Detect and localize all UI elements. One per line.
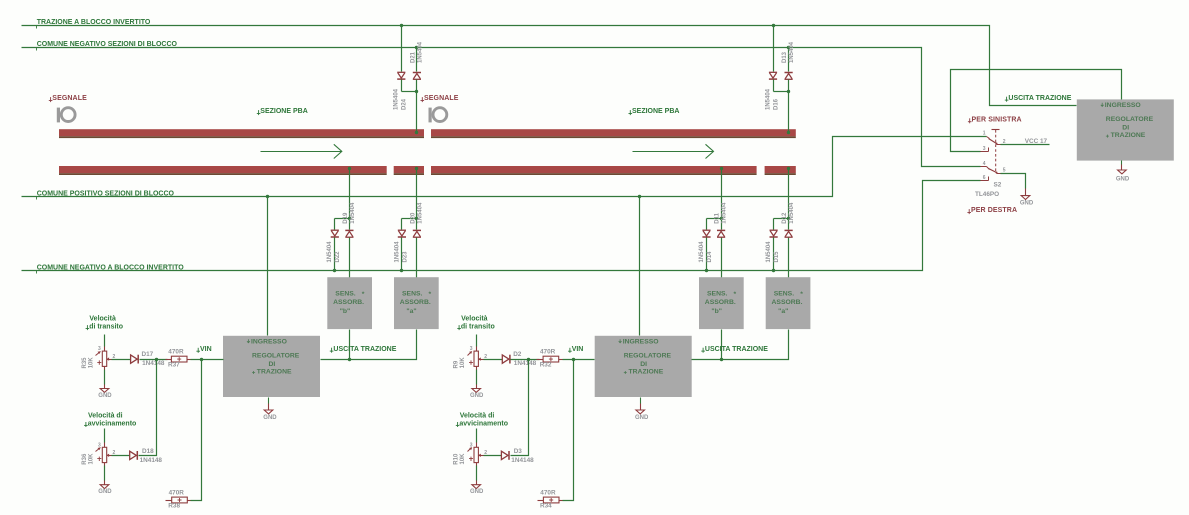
svg-text:470R: 470R xyxy=(169,490,185,497)
svg-text:1N5404: 1N5404 xyxy=(394,88,400,110)
label 1N4148 of D2 xyxy=(514,360,537,367)
svg-text:TRAZIONE A BLOCCO INVERTITO: TRAZIONE A BLOCCO INVERTITO xyxy=(37,19,151,26)
label D18 xyxy=(142,448,154,455)
track section bar row2 segment C (lower rail) xyxy=(431,166,757,175)
diode D17 1N4148 xyxy=(131,355,139,364)
wire from diode D23 down to bottom bus xyxy=(400,238,403,273)
svg-text:6: 6 xyxy=(983,175,986,181)
label 1N5404 of D21 xyxy=(418,41,424,63)
resistor R38 470R (lower) xyxy=(166,490,191,510)
svg-text:*: * xyxy=(734,291,737,298)
svg-text:1N5404: 1N5404 xyxy=(789,202,795,224)
label 1N5404 of D22 xyxy=(327,241,333,263)
diode D16 (1N5404, pointing down) xyxy=(769,72,777,79)
svg-text:COMUNE NEGATIVO SEZIONI DI BLO: COMUNE NEGATIVO SEZIONI DI BLOCCO xyxy=(37,41,178,48)
svg-text:R32: R32 xyxy=(540,362,552,369)
svg-text:SEGNALE: SEGNALE xyxy=(424,95,459,102)
label S2 xyxy=(994,181,1002,188)
track section bar row2 segment A (lower rail) xyxy=(59,166,387,175)
svg-text:1: 1 xyxy=(983,131,986,137)
svg-text:3: 3 xyxy=(470,346,473,352)
svg-text:di transito: di transito xyxy=(89,324,123,331)
label 1N5404 of D11 xyxy=(722,202,728,224)
svg-text:Velocità di: Velocità di xyxy=(88,412,123,419)
junction on track bar xyxy=(787,131,790,134)
op-block U-REG2 INGRESSO REGOLATORE DI TRAZIONE xyxy=(595,336,692,397)
svg-text:1N5404: 1N5404 xyxy=(418,41,424,63)
track section bar row1 left (SEZIONE PBA 1 upper rail) xyxy=(59,129,424,138)
svg-text:GND: GND xyxy=(98,393,112,399)
wire D18 cathode up to D17 node xyxy=(139,360,157,456)
svg-text:ASSORB.: ASSORB. xyxy=(333,299,364,306)
label D17 xyxy=(142,351,154,358)
diode D24 (1N5404, pointing down) xyxy=(397,72,405,79)
svg-text:D21: D21 xyxy=(410,51,416,63)
diode D13 (1N5404, pointing up) xyxy=(785,73,793,80)
svg-text:D13: D13 xyxy=(782,51,788,63)
svg-text:D3: D3 xyxy=(514,448,523,455)
wire net TRAZIONE A BLOCCO INVERTITO (top bus, runs right and into regulator 3 input) xyxy=(22,26,1077,106)
switch S2 pin 3 bracket xyxy=(981,146,989,152)
svg-text:R34: R34 xyxy=(540,503,552,510)
svg-text:GND: GND xyxy=(635,415,649,421)
svg-text:5: 5 xyxy=(1003,168,1006,174)
svg-text:USCITA TRAZIONE: USCITA TRAZIONE xyxy=(1008,95,1071,102)
svg-text:avvicinamento: avvicinamento xyxy=(459,421,508,428)
svg-text:1N5404: 1N5404 xyxy=(418,202,424,224)
svg-text:3: 3 xyxy=(98,346,101,352)
svg-text:di transito: di transito xyxy=(461,324,495,331)
wire from top bus down to diode D16 xyxy=(772,24,775,72)
wire from second bus down through diode D13 to track xyxy=(787,46,790,72)
label 1N5404 of D16 xyxy=(765,88,771,110)
label USCITA TRAZIONE cluster 2 xyxy=(701,346,768,353)
wire R36 wiper to diode D18 xyxy=(112,455,130,457)
wire jog joining D16 and D13 xyxy=(774,80,791,133)
svg-text:470R: 470R xyxy=(540,349,556,356)
svg-text:GND: GND xyxy=(98,489,112,495)
label D11 xyxy=(715,212,721,223)
label VIN (cluster 1) xyxy=(196,346,211,353)
svg-text:REGOLATORE: REGOLATORE xyxy=(624,352,672,359)
wire + ground under regulator 3 xyxy=(1116,161,1130,183)
label D13 xyxy=(782,51,788,63)
svg-text:SENS.: SENS. xyxy=(335,291,356,298)
label 1N5404 of D19 xyxy=(350,202,356,224)
svg-text:Velocità: Velocità xyxy=(89,316,116,323)
switch S2 pin 1 contact and lever xyxy=(987,137,998,145)
svg-text:1N5404: 1N5404 xyxy=(766,241,772,263)
wire R32 to VIN node xyxy=(563,358,595,361)
svg-text:"b": "b" xyxy=(340,308,351,315)
diode D22 (1N5404, pointing down) xyxy=(331,230,339,237)
svg-text:4: 4 xyxy=(983,161,986,167)
svg-text:GND: GND xyxy=(1020,200,1034,206)
wire from diode D15 down to bottom bus xyxy=(772,238,775,273)
diode D11 (1N5404, pointing up) xyxy=(717,230,725,237)
wire switch pin3 to regulator 3 top input xyxy=(951,70,1122,152)
svg-text:10K: 10K xyxy=(460,453,466,465)
svg-text:VIN: VIN xyxy=(572,346,584,353)
diode D18 1N4148 xyxy=(130,451,138,460)
svg-text:1N5404: 1N5404 xyxy=(765,88,771,110)
svg-text:DI: DI xyxy=(640,361,647,368)
label D24 xyxy=(402,98,408,110)
svg-text:D11: D11 xyxy=(715,212,721,223)
wire R10 wiper to diode D3 xyxy=(484,455,502,457)
wire net COMUNE POSITIVO SEZIONI DI BLOCCO (third bus, rises to switch pin 1) xyxy=(22,137,987,197)
wire label to potentiometer R36 xyxy=(104,429,106,443)
svg-text:ASSORB.: ASSORB. xyxy=(772,299,803,306)
wire from track bar down through diode D19 to sensor block xyxy=(348,167,351,278)
diode D15 (1N5404, pointing down) xyxy=(770,230,778,237)
label PER SINISTRA xyxy=(968,116,1022,123)
wire from second bus down through diode D21 to track xyxy=(415,46,418,72)
svg-text:TRAZIONE: TRAZIONE xyxy=(629,368,664,375)
svg-text:"a": "a" xyxy=(406,308,416,315)
wire R38 up to VIN node xyxy=(191,360,202,501)
resistor R34 470R (lower) xyxy=(538,490,563,510)
label D12 xyxy=(782,212,788,224)
label D2 xyxy=(513,351,522,358)
net label TRAZIONE A BLOCCO INVERTITO xyxy=(37,19,151,28)
svg-text:Velocità: Velocità xyxy=(461,316,488,323)
svg-text:10K: 10K xyxy=(460,357,466,369)
label D15 xyxy=(774,251,780,263)
potentiometer R10 10K xyxy=(454,442,488,464)
ground under potentiometer R35 xyxy=(98,367,112,399)
svg-text:10K: 10K xyxy=(89,357,95,369)
net label COMUNE NEGATIVO A BLOCCO INVERTITO xyxy=(37,265,185,274)
signal symbol and label SEGNALE (left) xyxy=(49,95,87,122)
svg-text:D19: D19 xyxy=(343,212,349,224)
diode D14 (1N5404, pointing down) xyxy=(702,230,710,237)
label 1N4148 of D17 xyxy=(142,360,165,367)
wire from track bar down through diode D12 to sensor block xyxy=(787,167,790,278)
svg-text:INGRESSO: INGRESSO xyxy=(623,339,659,346)
label 1N5404 of D24 xyxy=(394,88,400,110)
label 1N4148 of D18 xyxy=(140,457,163,464)
svg-text:R9: R9 xyxy=(454,360,460,368)
label 1N5404 of D23 xyxy=(394,241,400,263)
label 1N5404 of D15 xyxy=(766,241,772,263)
ground under potentiometer R9 xyxy=(470,367,484,399)
potentiometer R35 10K xyxy=(82,346,116,368)
svg-text:10K: 10K xyxy=(89,453,95,465)
label D14 xyxy=(707,251,713,263)
svg-text:1N5404: 1N5404 xyxy=(394,241,400,263)
label D22 xyxy=(335,251,341,263)
svg-text:USCITA TRAZIONE: USCITA TRAZIONE xyxy=(333,346,396,353)
svg-text:REGOLATORE: REGOLATORE xyxy=(252,352,300,359)
svg-text:R38: R38 xyxy=(168,503,180,510)
svg-text:COMUNE POSITIVO SEZIONI DI BLO: COMUNE POSITIVO SEZIONI DI BLOCCO xyxy=(37,191,175,198)
svg-text:SEZIONE PBA: SEZIONE PBA xyxy=(632,108,679,115)
svg-text:1N4148: 1N4148 xyxy=(511,457,534,464)
block U-SENS3 SENS. ASSORB. "b" xyxy=(699,277,744,329)
label USCITA TRAZIONE (top right, into regulator 3) xyxy=(1005,95,1072,102)
svg-text:PER SINISTRA: PER SINISTRA xyxy=(972,116,1022,123)
direction arrow (left section) xyxy=(261,144,342,158)
switch S2 pin 5 stub, wire and ground xyxy=(997,168,1034,207)
svg-text:3: 3 xyxy=(98,442,101,448)
label D20 xyxy=(410,212,416,224)
track section bar row1 right (SEZIONE PBA 2 upper rail) xyxy=(431,129,796,138)
wire from COMUNE POSITIVO bus down to regulator 1 top xyxy=(266,195,269,336)
label Velocita di avvicinamento (cluster 2) xyxy=(456,412,508,427)
track section bar row2 segment D (lower rail) xyxy=(765,166,796,175)
label TL46PO xyxy=(975,191,999,198)
potentiometer R36 10K xyxy=(82,442,116,464)
diode D2 1N4148 xyxy=(502,355,510,364)
svg-text:USCITA TRAZIONE: USCITA TRAZIONE xyxy=(705,346,768,353)
svg-text:SENS.: SENS. xyxy=(774,291,795,298)
wire from track bar down through diode D11 to sensor block xyxy=(720,167,723,278)
svg-text:*: * xyxy=(800,291,803,298)
svg-text:D22: D22 xyxy=(335,251,341,263)
label D23 xyxy=(402,251,408,263)
switch S2 mechanical link (dashed) and top bar xyxy=(992,130,1000,172)
svg-text:SENS.: SENS. xyxy=(707,291,728,298)
label D3 xyxy=(514,448,523,455)
wire from COMUNE POSITIVO bus down to regulator 2 top xyxy=(638,195,641,336)
resistor R37 470R xyxy=(166,349,191,369)
net label VCC17 xyxy=(1025,138,1048,145)
label 1N5404 of D20 xyxy=(418,202,424,224)
svg-text:SENS.: SENS. xyxy=(402,291,423,298)
potentiometer R9 10K xyxy=(454,346,488,368)
svg-text:R36: R36 xyxy=(82,453,88,465)
svg-text:GND: GND xyxy=(1116,177,1130,183)
block U-SENS4 SENS. ASSORB. "a" xyxy=(766,277,811,329)
svg-text:GND: GND xyxy=(470,489,484,495)
switch S2 pin 6 bracket xyxy=(981,175,989,181)
diode D20 (1N5404, pointing up) xyxy=(413,230,421,237)
svg-text:DI: DI xyxy=(1122,125,1129,132)
signal symbol and label SEGNALE (right) xyxy=(421,95,459,122)
svg-text:S2: S2 xyxy=(994,181,1002,188)
wire jog joining D23 and D20 xyxy=(402,217,419,230)
wire + ground under regulator 2 xyxy=(635,398,649,421)
wire from diode D22 down to bottom bus xyxy=(333,238,336,273)
svg-text:INGRESSO: INGRESSO xyxy=(251,339,287,346)
svg-text:D23: D23 xyxy=(402,251,408,263)
direction arrow (right section) xyxy=(633,144,714,158)
svg-text:*: * xyxy=(362,291,365,298)
wire from diode D14 down to bottom bus xyxy=(705,238,708,273)
label PER DESTRA xyxy=(967,207,1017,214)
wire USCITA TRAZIONE cluster 1 (regulator 1 output to sensor blocks) xyxy=(321,330,417,362)
svg-text:TL46PO: TL46PO xyxy=(975,191,999,198)
diode D21 (1N5404, pointing up) xyxy=(413,73,421,80)
ground under potentiometer R36 xyxy=(98,463,112,496)
svg-text:GND: GND xyxy=(470,393,484,399)
label 1N5404 of D14 xyxy=(699,241,705,263)
block U-SENS1 SENS. ASSORB. "b" xyxy=(327,277,372,329)
svg-text:D17: D17 xyxy=(142,351,154,358)
label USCITA TRAZIONE cluster 1 xyxy=(330,346,397,353)
wire R9 wiper to diode D2 xyxy=(484,359,503,361)
svg-text:1N5404: 1N5404 xyxy=(350,202,356,224)
label Velocita di avvicinamento (cluster 1) xyxy=(84,412,136,427)
svg-text:470R: 470R xyxy=(540,490,556,497)
svg-text:REGOLATORE: REGOLATORE xyxy=(1106,116,1154,123)
label VIN (cluster 2) xyxy=(568,346,583,353)
op-block U-REG3 INGRESSO REGOLATORE DI TRAZIONE xyxy=(1077,99,1174,160)
label SEZIONE PBA (left section) xyxy=(257,108,308,115)
svg-text:D24: D24 xyxy=(402,98,408,110)
label 1N5404 of D13 xyxy=(789,41,795,63)
diode D19 (1N5404, pointing up) xyxy=(345,230,353,237)
svg-text:VIN: VIN xyxy=(200,346,212,353)
svg-text:ASSORB.: ASSORB. xyxy=(705,299,736,306)
label 1N5404 of D12 xyxy=(789,202,795,224)
svg-text:"b": "b" xyxy=(711,308,722,315)
wire from top bus down to diode D24 xyxy=(400,24,403,72)
svg-text:1N4148: 1N4148 xyxy=(140,457,163,464)
svg-text:*: * xyxy=(429,291,432,298)
svg-text:ASSORB.: ASSORB. xyxy=(400,299,431,306)
label D21 xyxy=(410,51,416,63)
wire D17 cathode to resistor R37 xyxy=(140,358,168,361)
wire R34 up to VIN node xyxy=(563,360,574,501)
wire jog joining D22 and D19 xyxy=(335,217,352,230)
wire jog joining D24 and D21 xyxy=(402,80,419,133)
svg-text:R37: R37 xyxy=(168,362,180,369)
svg-text:2: 2 xyxy=(1003,139,1006,145)
svg-text:TRAZIONE: TRAZIONE xyxy=(257,368,292,375)
wire D2 cathode to resistor R32 xyxy=(511,358,540,361)
svg-text:3: 3 xyxy=(983,146,986,152)
svg-text:1N4148: 1N4148 xyxy=(514,360,537,367)
diode D23 (1N5404, pointing down) xyxy=(398,230,406,237)
switch S2 pin 4 contact and lever xyxy=(981,161,998,173)
svg-text:D15: D15 xyxy=(774,251,780,263)
svg-text:D12: D12 xyxy=(782,212,788,224)
net label COMUNE NEGATIVO SEZIONI DI BLOCCO xyxy=(37,41,178,50)
op-block U-REG1 INGRESSO REGOLATORE DI TRAZIONE xyxy=(223,336,320,397)
label D19 xyxy=(343,212,349,224)
wire USCITA TRAZIONE cluster 2 (regulator 2 output to sensor blocks) xyxy=(692,330,789,362)
svg-text:avvicinamento: avvicinamento xyxy=(88,421,137,428)
wire R35 wiper to diode D17 xyxy=(112,359,131,361)
svg-text:D20: D20 xyxy=(410,212,416,224)
switch S2 pin 1 number xyxy=(983,131,986,137)
wire label to potentiometer R10 xyxy=(476,429,478,443)
label D16 xyxy=(773,98,779,110)
block U-SENS2 SENS. ASSORB. "a" xyxy=(394,277,439,329)
wire D3 cathode up to D2 node xyxy=(511,360,529,456)
svg-text:"a": "a" xyxy=(778,308,788,315)
wire R37 to VIN node xyxy=(191,358,224,361)
wire net COMUNE NEGATIVO SEZIONI DI BLOCCO (second bus, to switch pin 4) xyxy=(22,48,981,167)
svg-text:GND: GND xyxy=(263,415,277,421)
svg-text:1N4148: 1N4148 xyxy=(142,360,165,367)
wire label to potentiometer R35 xyxy=(104,335,106,347)
ground under potentiometer R10 xyxy=(470,463,484,496)
svg-text:VCC 17: VCC 17 xyxy=(1025,138,1048,145)
svg-text:1N5404: 1N5404 xyxy=(327,241,333,263)
svg-text:1N5404: 1N5404 xyxy=(699,241,705,263)
wire from track bar down through diode D20 to sensor block xyxy=(415,167,418,278)
wire label to potentiometer R9 xyxy=(476,335,478,347)
svg-text:Velocità di: Velocità di xyxy=(460,412,495,419)
svg-text:SEZIONE PBA: SEZIONE PBA xyxy=(260,108,307,115)
svg-text:1N5404: 1N5404 xyxy=(722,202,728,224)
svg-text:3: 3 xyxy=(470,442,473,448)
wire jog joining D15 and D12 xyxy=(774,217,791,230)
svg-text:COMUNE NEGATIVO A BLOCCO INVER: COMUNE NEGATIVO A BLOCCO INVERTITO xyxy=(37,265,185,272)
track section bar row2 segment B (lower rail) xyxy=(394,166,424,175)
label SEZIONE PBA (right section) xyxy=(629,108,680,115)
wire jog joining D14 and D11 xyxy=(707,217,724,230)
label Velocita di transito (cluster 1) xyxy=(86,316,123,331)
wire + ground under regulator 1 xyxy=(263,398,277,421)
svg-text:D16: D16 xyxy=(773,98,779,110)
svg-text:PER DESTRA: PER DESTRA xyxy=(971,207,1017,214)
svg-text:R35: R35 xyxy=(82,357,88,369)
svg-text:D18: D18 xyxy=(142,448,154,455)
svg-text:DI: DI xyxy=(269,361,276,368)
svg-text:470R: 470R xyxy=(168,349,184,356)
switch S2 pin 2 stub and wire to VCC17 xyxy=(997,139,1050,145)
label Velocita di transito (cluster 2) xyxy=(457,316,494,331)
net label COMUNE POSITIVO SEZIONI DI BLOCCO xyxy=(37,191,175,200)
resistor R32 470R xyxy=(537,349,563,369)
svg-text:D2: D2 xyxy=(513,351,522,358)
svg-text:D14: D14 xyxy=(707,251,713,263)
svg-text:R10: R10 xyxy=(454,453,460,465)
svg-text:1N5404: 1N5404 xyxy=(789,41,795,63)
label 1N4148 of D3 xyxy=(511,457,534,464)
wire net COMUNE NEGATIVO A BLOCCO INVERTITO (fourth bus, rises to switch pin 6) xyxy=(22,181,981,271)
diode D3 1N4148 xyxy=(501,451,509,460)
junction on track bar xyxy=(415,131,418,134)
svg-text:TRAZIONE: TRAZIONE xyxy=(1111,132,1146,139)
svg-text:INGRESSO: INGRESSO xyxy=(1105,102,1141,109)
svg-text:SEGNALE: SEGNALE xyxy=(52,95,87,102)
diode D12 (1N5404, pointing up) xyxy=(785,230,793,237)
